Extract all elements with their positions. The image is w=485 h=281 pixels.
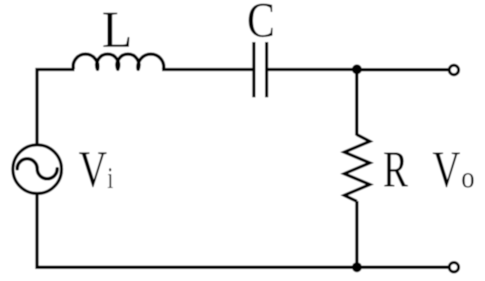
wire left vertical upper (source top to top-left corner) bbox=[37, 70, 75, 145]
source Vi circle bbox=[13, 145, 62, 194]
label L bbox=[103, 13, 129, 47]
label Vo bbox=[433, 152, 460, 187]
label Vi bbox=[79, 152, 107, 187]
inductor L bbox=[73, 54, 164, 69]
wire inductor to capacitor bbox=[162, 68, 253, 71]
capacitor C plates bbox=[252, 42, 255, 97]
resistor R zigzag bbox=[344, 135, 370, 202]
label C bbox=[249, 4, 273, 37]
source Vi sine wave bbox=[17, 159, 57, 179]
wire bottom rail bbox=[37, 194, 357, 267]
node junction dot top bbox=[352, 64, 362, 74]
output terminal bottom bbox=[449, 263, 458, 272]
wire junction to bottom output terminal bbox=[357, 266, 450, 269]
output terminal top bbox=[449, 65, 458, 74]
wire resistor bottom lead bbox=[355, 201, 358, 267]
label R bbox=[384, 152, 408, 186]
node junction dot bottom bbox=[352, 262, 362, 272]
wire capacitor to junction bbox=[267, 68, 357, 71]
wire junction to top output terminal bbox=[357, 68, 450, 71]
wire resistor top lead bbox=[355, 70, 358, 136]
